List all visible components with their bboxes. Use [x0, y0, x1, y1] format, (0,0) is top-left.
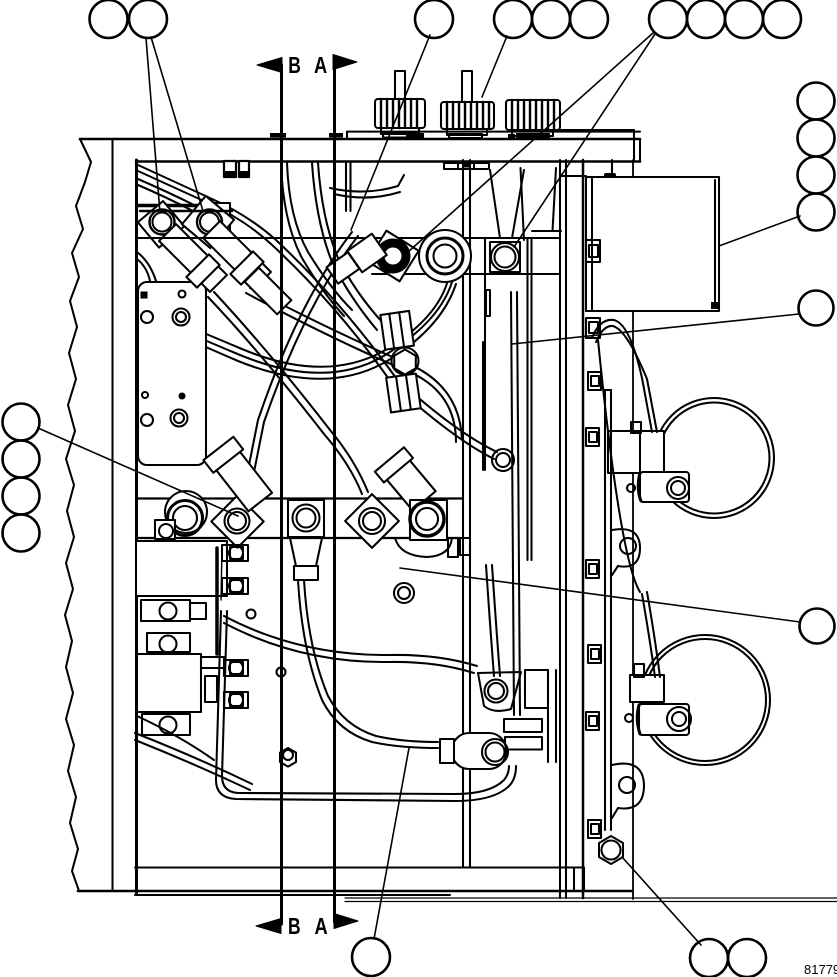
svg-text:A: A [315, 913, 328, 939]
svg-text:B: B [288, 52, 301, 78]
svg-text:B: B [288, 913, 301, 939]
svg-text:A: A [314, 52, 327, 78]
svg-text:81779: 81779 [804, 962, 837, 977]
